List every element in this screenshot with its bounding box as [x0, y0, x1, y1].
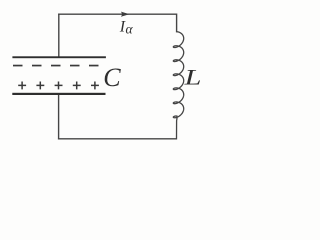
svg-text:C: C — [103, 63, 121, 92]
svg-text:Iα: Iα — [119, 19, 134, 37]
svg-text:L: L — [183, 65, 201, 90]
